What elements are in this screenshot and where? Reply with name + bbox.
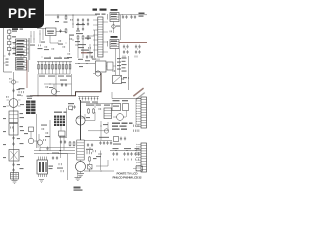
tick tail A (123, 56, 125, 58)
cluster lower (113, 137, 126, 145)
wire verticals left of T301 (60, 136, 64, 158)
wire mid rail (75, 62, 95, 65)
transistor Q102 (24, 127, 34, 144)
PDF badge (0, 0, 44, 28)
box U602 (123, 104, 129, 111)
connector CN201 main strip (98, 17, 103, 57)
label D-05 (12, 28, 23, 30)
comb bottom labels (39, 76, 71, 77)
wire main bus thick (30, 73, 101, 96)
wire right of reg (85, 30, 95, 58)
capacitor C803 (86, 55, 93, 59)
box audio U601 (112, 104, 121, 111)
wire top power rail (45, 15, 97, 16)
transistor Q303 (51, 84, 60, 94)
wire under boxes (101, 66, 116, 78)
center upper blobs (78, 59, 90, 67)
node dots U101 (13, 44, 16, 54)
cap bank row2 (76, 22, 89, 32)
label diode row (80, 102, 98, 103)
ground center (75, 171, 82, 181)
connector CN101 (16, 58, 27, 71)
diode D102 (8, 40, 17, 46)
ground left chain (12, 181, 18, 184)
wire upper center (85, 114, 90, 121)
label U401 (49, 166, 54, 170)
svg-text:PHILCO PH24M LCD 32: PHILCO PH24M LCD 32 (113, 176, 142, 180)
wire CN201 stubs right (103, 22, 108, 52)
misc topcenter col1 (38, 30, 43, 49)
wire chain top link (86, 104, 112, 109)
capacitor bank left of CN201 (76, 18, 89, 40)
center lower parts (101, 121, 109, 140)
capacitor quad A (123, 45, 129, 55)
connector CN301 (104, 105, 112, 119)
label maroon REG (81, 50, 92, 53)
cluster right of T301 (86, 143, 93, 154)
capacitor cluster mid1 (59, 137, 67, 145)
misc col x90 (87, 44, 93, 58)
IC U401 top pins (39, 157, 47, 161)
regulator U801 (46, 28, 57, 36)
capacitor comb right (134, 125, 139, 132)
parts right of IC U401 (57, 163, 63, 172)
capacitor cluster right of U401 (52, 153, 59, 161)
connector CN801 strip (136, 97, 146, 128)
wire bottom rails (34, 150, 75, 154)
mid row y105 parts (96, 103, 101, 110)
bead L801 (110, 25, 120, 33)
wire into CN801 (112, 92, 141, 99)
label boxes (113, 100, 129, 101)
capacitor C111 (12, 163, 20, 173)
diagonal label line1 (133, 88, 144, 97)
transistor Q301 (76, 112, 85, 126)
misc parts mid-top (44, 43, 58, 51)
wire bottom extend (84, 140, 99, 142)
component slash box (113, 76, 128, 84)
wire comb right drop (71, 74, 73, 96)
tick pair mid y86 (46, 86, 53, 88)
label stack texts (6, 59, 9, 66)
ground U401 (39, 180, 44, 183)
label 12V right (139, 13, 145, 17)
resistor cluster mid2 (69, 141, 75, 147)
cluster S-20B (68, 103, 76, 110)
IC U401 (37, 160, 48, 174)
wire mid horizontal (88, 122, 108, 131)
transformer T2 small (11, 173, 19, 180)
label KOB (74, 187, 83, 191)
wire reg drops (50, 36, 58, 44)
tick tails bottom (114, 159, 139, 161)
resistor R310 (86, 105, 94, 115)
label keypad (54, 112, 67, 113)
wire U401 right (58, 154, 68, 181)
wire reg out (56, 31, 66, 33)
relay RL1 (9, 111, 23, 123)
capacitor C305 (60, 80, 67, 88)
capacitor C101 (8, 52, 16, 56)
label CN201 top (95, 14, 106, 15)
wire mid y84 (44, 83, 72, 86)
transistor Q302 big (76, 162, 86, 172)
diode D401 (88, 163, 93, 172)
tick pair right3 (113, 70, 115, 72)
wire to title (96, 160, 108, 166)
diode row D801-D807 (78, 97, 99, 101)
cap row right of T301 (99, 137, 112, 145)
transistor Q601 (113, 114, 126, 121)
wire y147 rail (40, 147, 75, 149)
connector P802 (108, 40, 120, 49)
capacitor quad B (135, 45, 141, 55)
text block dense (112, 123, 133, 130)
connector P801 (108, 13, 120, 22)
transistor Q103 (37, 139, 45, 150)
resistor R405 (89, 156, 97, 162)
resistor array RN301 (37, 61, 72, 74)
bridge rectifier BR1 (9, 150, 19, 162)
wire table drop (36, 114, 38, 148)
misc topcenter col2 (41, 29, 45, 43)
capacitor C110 (12, 136, 20, 146)
capacitor C810 (122, 15, 128, 19)
wire x50 drop (49, 120, 51, 151)
wire left drops (78, 40, 86, 58)
wire left vertical feed (4, 27, 13, 72)
wire long drop (120, 15, 122, 40)
capacitor C802 (59, 29, 61, 33)
wire drop from rail (71, 15, 74, 28)
cluster D410 (19, 88, 25, 96)
wire CN201 stubs left (93, 20, 98, 50)
label table (27, 96, 33, 99)
jumper table TP (26, 101, 36, 115)
diode D103 (8, 46, 17, 52)
ground main (77, 172, 84, 177)
box photo-coupler U202 (96, 61, 107, 72)
wire rm verticals (127, 99, 137, 124)
left chain side labels (3, 106, 6, 158)
cluster mid-top parts (69, 35, 80, 47)
relay RL2 (9, 124, 23, 136)
wire keypad feeds (61, 108, 67, 136)
varistor RV1 (9, 78, 19, 84)
label SUPPLY (100, 9, 107, 11)
label RN301 (44, 58, 69, 59)
wire bottom run (84, 170, 114, 173)
parts above box U202 (92, 59, 99, 61)
wire P801 drop (113, 22, 115, 34)
wire P801 rail (119, 13, 147, 16)
transformer T301 (77, 140, 84, 162)
resistor R801 (64, 15, 68, 23)
label P801 (111, 9, 118, 11)
capacitor trio C (134, 148, 139, 156)
wire maroon rail P802 (119, 42, 147, 44)
IC U401 bottom pins (39, 174, 47, 177)
right mid extra (121, 78, 129, 84)
center mid parts (41, 125, 50, 138)
misc parts x70 col (67, 36, 72, 58)
wire primary vertical (80, 100, 82, 140)
capacitor C811 (130, 15, 136, 19)
wire bus branch (37, 74, 56, 96)
wire q301 arms (85, 112, 95, 121)
line filter T1 (7, 95, 22, 108)
resistor R802 (65, 28, 67, 34)
svg-text:PDF: PDF (8, 6, 37, 21)
label P802 (111, 36, 118, 38)
transistor Q201 (93, 71, 101, 76)
wire x39 drop (38, 134, 40, 140)
IC U101 (16, 39, 30, 56)
wire q102 elbow (34, 141, 38, 148)
label PWR (93, 9, 98, 11)
wire double left (28, 38, 30, 72)
bottom mid extra (96, 151, 101, 171)
wire left chain vertical (13, 72, 15, 180)
wire topleft stubs (30, 31, 35, 46)
keypad matrix SW block (54, 116, 65, 127)
misc parts right of reg (58, 40, 66, 48)
misc parts above comb (42, 56, 61, 59)
tick tail B (135, 56, 137, 58)
box above title (133, 166, 143, 171)
text column right (117, 58, 121, 70)
capacitor C402 (46, 147, 48, 151)
capacitor trio B (123, 148, 132, 156)
diode D101 (8, 35, 17, 41)
wire right verticals (116, 49, 120, 76)
wire comb bottom bus (39, 73, 71, 75)
capacitor CX1 (12, 89, 20, 93)
connector CN802 strip (136, 143, 146, 172)
wire badge underside (37, 28, 46, 30)
wire bottom-right rail (110, 149, 141, 152)
box below keypad (59, 131, 66, 136)
diagonal label line2 (136, 92, 145, 100)
left chain right labels (20, 104, 25, 169)
capacitor C801 (55, 15, 59, 22)
tick cluster q302 right (87, 150, 95, 152)
box right snubber (107, 62, 113, 70)
capacitor trio A (112, 148, 118, 156)
wire maroon drop (26, 60, 28, 88)
wire mid drop (128, 56, 130, 90)
fuse F101 (8, 29, 18, 35)
text col right2 (122, 58, 127, 72)
wire U101 to CN101 (21, 56, 24, 58)
